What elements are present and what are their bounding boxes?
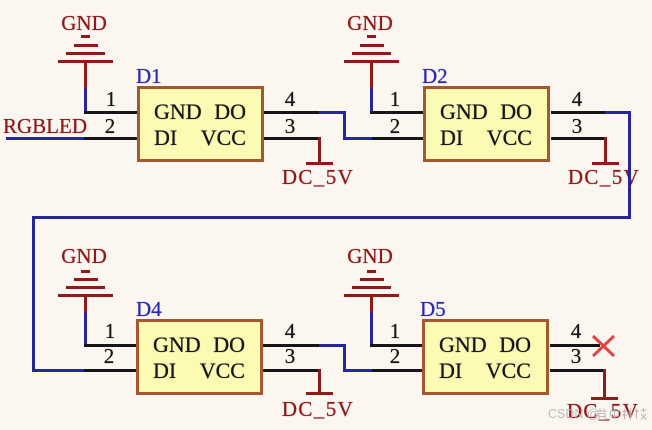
pin name row GND DO (D1) (154, 101, 202, 123)
pin 1 of D2 (370, 111, 423, 114)
ground symbol GND (for D2) (0, 0, 652, 1)
pin number 4 (D5) (571, 321, 582, 342)
power symbol DC_5V (for D5 VCC) (0, 0, 652, 1)
pin name row DI VCC (D1) (154, 127, 177, 149)
wire GND to D4 pin 1 (84, 312, 87, 347)
pin number 2 (D5) (390, 346, 401, 367)
pin 1 of D5 (370, 344, 422, 347)
wire D2 DO feedback (left vertical) (32, 216, 35, 372)
ground symbol GND (for D5) (0, 0, 652, 1)
pin number 2 (D1) (105, 116, 116, 137)
watermark CJK glyphs (597, 408, 647, 420)
pin number 4 (D1) (285, 89, 296, 110)
pin number 1 (D1) (106, 89, 117, 110)
chip D4 (136, 319, 263, 395)
pin 1 of D1 (84, 111, 137, 114)
wire D4 DO to D5 DI (vertical) (343, 344, 346, 372)
wire D2 DO feedback (long horizontal) (32, 216, 631, 219)
pin number 1 (D5) (390, 321, 401, 342)
pin 2 of D2 (372, 137, 423, 140)
chip D2 (423, 86, 550, 162)
pin 4 of D1 (264, 111, 319, 114)
pin 4 of D4 (263, 344, 319, 347)
pin 1 of D4 (84, 344, 136, 347)
wire D2 DO feedback (right vertical) (628, 111, 631, 219)
pin number 3 (D5) (571, 346, 582, 367)
wire GND to D1 pin 1 (84, 88, 87, 114)
pin 3 of D4 (263, 369, 319, 372)
wire RGBLED net to D1 pin 2 (6, 137, 84, 140)
power symbol DC_5V (for D2 VCC) (0, 0, 652, 1)
pin name row DI VCC (D5) (439, 360, 462, 382)
pin number 3 (D1) (285, 116, 296, 137)
wire D1 DO to D2 DI (vertical) (343, 111, 346, 140)
wire D2 DO feedback (horizontal from pin 4) (605, 111, 631, 114)
chip D5 (422, 319, 549, 395)
pin 2 of D5 (372, 369, 422, 372)
power symbol DC_5V (for D1 VCC) (0, 0, 652, 1)
wire D4 DO to D5 DI (horizontal upper) (319, 344, 346, 347)
wire GND to D2 pin 1 (370, 88, 373, 114)
pin number 2 (D2) (390, 116, 401, 137)
pin name row DI VCC (D2) (440, 127, 463, 149)
pin name row GND DO (D5) (439, 334, 487, 356)
pin 3 of D5 (550, 369, 604, 372)
pin name row GND DO (D4) (153, 334, 201, 356)
pin number 2 (D4) (104, 346, 115, 367)
pin number 1 (D2) (390, 89, 401, 110)
ground symbol GND (for D1) (0, 0, 652, 1)
pin number 4 (D4) (285, 321, 296, 342)
power symbol DC_5V (for D4 VCC) (0, 0, 652, 1)
pin number 3 (D4) (285, 346, 296, 367)
designator D4 (136, 299, 162, 320)
designator D2 (422, 66, 448, 87)
wire D1 DO to D2 DI (horizontal lower) (343, 137, 372, 140)
pin number 4 (D2) (572, 89, 583, 110)
pin 4 of D2 (551, 111, 605, 114)
wire feedback to D4 pin 2 (32, 369, 84, 372)
net label RGBLED (3, 116, 87, 137)
pin 3 of D2 (551, 137, 605, 140)
pin name row DI VCC (D4) (153, 360, 176, 382)
pin 2 of D1 (84, 137, 137, 140)
watermark CSDN (548, 408, 600, 421)
wire D1 DO to D2 DI (horizontal upper) (319, 111, 346, 114)
wire GND to D5 pin 1 (370, 312, 373, 347)
pin number 1 (D4) (105, 321, 116, 342)
pin number 3 (D2) (572, 116, 583, 137)
designator D1 (136, 66, 162, 87)
pin 2 of D4 (84, 369, 136, 372)
designator D5 (420, 299, 446, 320)
no-connect X on D5 pin 4 (591, 334, 616, 359)
pin name row GND DO (D2) (440, 101, 488, 123)
ground symbol GND (for D4) (0, 0, 652, 1)
pin 4 of D5 (550, 344, 600, 347)
pin 3 of D1 (264, 137, 319, 140)
chip D1 (137, 86, 264, 162)
wire D4 DO to D5 DI (horizontal lower) (343, 369, 372, 372)
